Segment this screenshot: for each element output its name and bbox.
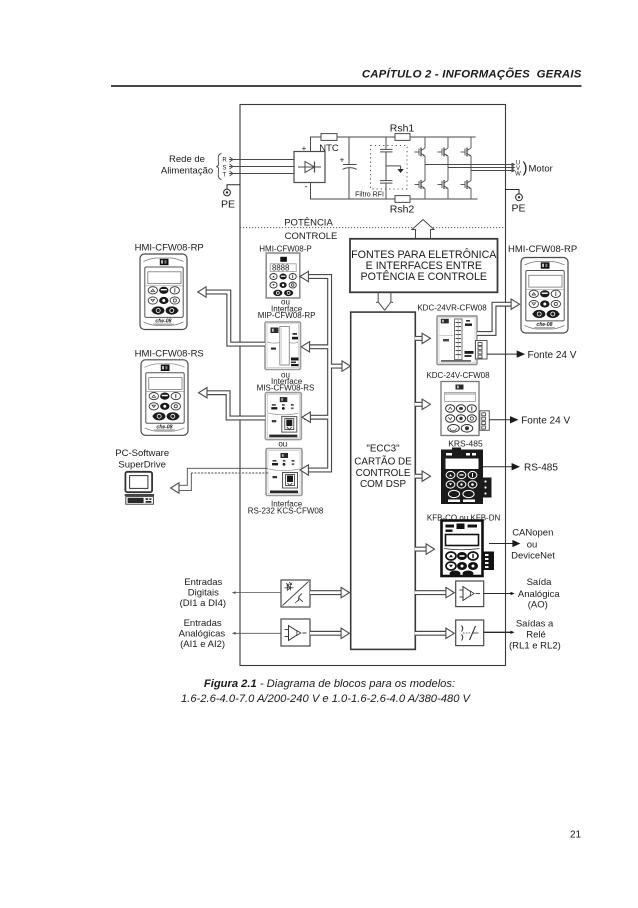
wire RS-485	[483, 466, 512, 468]
svg-text:RS-485: RS-485	[524, 463, 558, 474]
svg-text:KDC-24V-CFW08: KDC-24V-CFW08	[426, 371, 490, 380]
keypad HMI-CFW08-RP right	[521, 258, 568, 334]
svg-text:Entradas: Entradas	[184, 577, 222, 588]
svg-text:KRS-485: KRS-485	[448, 438, 483, 448]
open arrowheads	[300, 271, 308, 281]
wire CANopen/DeviceNet	[489, 543, 513, 545]
outer diagram box	[240, 105, 506, 666]
brace	[216, 154, 221, 180]
svg-text:DeviceNet: DeviceNet	[511, 551, 555, 562]
svg-text:PC-Software: PC-Software	[115, 448, 169, 459]
transistor Q3	[461, 146, 472, 159]
ground PE right	[506, 190, 526, 215]
shunt Rsh1	[395, 134, 410, 141]
svg-text:W: W	[515, 171, 521, 177]
keypad HMI-CFW08-RP left	[140, 254, 187, 330]
svg-text:Relé: Relé	[526, 629, 546, 640]
svg-text:MIP-CFW08-RP: MIP-CFW08-RP	[258, 311, 316, 320]
svg-text:1.6-2.6-4.0-7.0 A/200-240 V e: 1.6-2.6-4.0-7.0 A/200-240 V e 1.0-1.6-2.…	[181, 693, 472, 705]
RFI filter dotted box	[371, 146, 408, 190]
svg-text:Digitais: Digitais	[188, 587, 219, 598]
svg-text:+: +	[302, 144, 307, 153]
wire AO output	[484, 593, 512, 595]
svg-text:-: -	[305, 182, 308, 192]
keypad HMI-CFW08-P	[266, 253, 300, 298]
svg-text:POTÊNCIA: POTÊNCIA	[284, 218, 333, 229]
box ECC3 control card	[351, 312, 416, 649]
svg-text:Rsh2: Rsh2	[390, 203, 415, 215]
transistor Q2	[438, 146, 449, 159]
header title	[362, 67, 582, 80]
transistor Q1	[415, 146, 426, 159]
svg-text:CARTÃO DE: CARTÃO DE	[354, 456, 412, 467]
funnel arrow FONTES to ECC3	[376, 293, 393, 311]
svg-text:FONTES PARA ELETRÔNICA: FONTES PARA ELETRÔNICA	[351, 248, 497, 261]
svg-text:HMI-CFW08-P: HMI-CFW08-P	[259, 244, 311, 253]
wire KCS to PC (solid top, dashed RS-232 bottom)	[179, 468, 268, 490]
svg-text:COM DSP: COM DSP	[360, 479, 407, 490]
svg-text:T: T	[223, 172, 227, 178]
svg-text:R: R	[222, 158, 227, 164]
wire Fonte 24V #1	[487, 353, 517, 355]
arrow ECC3 to KDC-24VR	[415, 336, 424, 341]
svg-text:KDC-24VR-CFW08: KDC-24VR-CFW08	[417, 304, 487, 313]
pentagon arrow up from FONTES to power	[412, 220, 434, 239]
wire into DI block	[234, 592, 282, 594]
wire KDC-24VR to HMI-RP right	[477, 304, 514, 333]
interface module KCS-CFW08	[266, 449, 302, 496]
svg-text:S: S	[222, 165, 226, 171]
svg-text:"ECC3": "ECC3"	[366, 444, 400, 455]
svg-text:): )	[523, 160, 528, 177]
interface module MIP-CFW08-RP	[265, 322, 301, 370]
svg-text:PE: PE	[221, 199, 235, 211]
NTC resistor	[321, 134, 337, 141]
svg-text:21: 21	[570, 830, 582, 841]
svg-text:(RL1 e RL2): (RL1 e RL2)	[509, 641, 561, 652]
svg-text:ou: ou	[278, 440, 287, 449]
transistor Q5	[438, 178, 449, 191]
IGBT legs	[425, 137, 471, 199]
box FONTES	[350, 239, 498, 292]
interface module MIS-CFW08-RS	[265, 393, 301, 440]
svg-text:Figura 2.1 - Diagrama de bloco: Figura 2.1 - Diagrama de blocos para os …	[204, 678, 455, 690]
svg-text:CANopen: CANopen	[512, 527, 553, 538]
svg-text:CONTROLE: CONTROLE	[285, 231, 338, 242]
ground PE left	[221, 185, 240, 211]
serial module KRS-485	[441, 448, 492, 505]
svg-text:Entradas: Entradas	[184, 618, 222, 629]
svg-text:8888: 8888	[272, 264, 289, 273]
dotted divider potencia/controle	[240, 227, 413, 229]
rectifier bridge	[294, 144, 325, 192]
input wire chevrons	[230, 157, 234, 176]
svg-text:CAPÍTULO 2 - INFORMAÇÕES GERA: CAPÍTULO 2 - INFORMAÇÕES GERAIS	[362, 67, 582, 80]
wire relay outputs	[484, 631, 512, 633]
input wires R S T	[229, 160, 294, 174]
relay output block	[456, 620, 484, 646]
arrow ECC3 to KDC-24V	[415, 402, 424, 407]
power supply module KDC-24V-CFW08	[441, 382, 489, 436]
arrow ECC3 to relay block	[415, 631, 448, 636]
power supply module KDC-24VR-CFW08	[437, 316, 487, 365]
svg-text:ou: ou	[527, 539, 538, 550]
svg-text:Filtro RFI: Filtro RFI	[355, 192, 384, 199]
svg-text:POTÊNCIA E CONTROLE: POTÊNCIA E CONTROLE	[361, 270, 488, 283]
motor output wires U V W	[425, 165, 513, 171]
digital input opto block	[281, 580, 310, 607]
arrow DI block to ECC3	[310, 590, 343, 595]
svg-text:HMI-CFW08-RP: HMI-CFW08-RP	[135, 243, 204, 254]
wire into AI block	[234, 632, 282, 634]
svg-text:SuperDrive: SuperDrive	[118, 460, 166, 471]
analog input amp block	[281, 619, 310, 646]
svg-text:(DI1 a DI4): (DI1 a DI4)	[180, 598, 226, 609]
arrow AI block to ECC3	[310, 631, 343, 636]
svg-text:NTC: NTC	[319, 143, 339, 154]
svg-text:+: +	[340, 156, 345, 165]
arrow ECC3 to KFB	[415, 547, 428, 552]
svg-text:Motor: Motor	[529, 163, 553, 174]
wire bus trunk HMI-P to ECC3/MIS/KCS	[304, 277, 330, 471]
white pass of hollow ribbons	[204, 277, 514, 634]
svg-text:HMI-CFW08-RP: HMI-CFW08-RP	[508, 244, 577, 255]
DC link capacitor	[343, 137, 357, 199]
shunt Rsh2	[395, 196, 410, 203]
svg-text:Rede de: Rede de	[169, 154, 205, 165]
keypad HMI-CFW08-RS	[141, 360, 188, 436]
transistor Q4	[415, 178, 426, 191]
svg-text:Rsh1: Rsh1	[390, 123, 415, 135]
transistor Q6	[461, 178, 472, 191]
svg-text:MIS-CFW08-RS: MIS-CFW08-RS	[257, 384, 315, 393]
svg-text:Analógica: Analógica	[518, 589, 560, 600]
svg-text:CONTROLE: CONTROLE	[356, 468, 411, 479]
svg-text:Fonte 24 V: Fonte 24 V	[528, 350, 577, 361]
fieldbus module KFB	[442, 521, 495, 577]
arrow ECC3 to KRS-485	[415, 474, 424, 479]
analog output amp block	[456, 581, 484, 607]
svg-text:Fonte 24 V: Fonte 24 V	[521, 415, 570, 426]
svg-text:Saídas a: Saídas a	[516, 618, 554, 629]
wire MIP to HMI-RP left	[204, 292, 265, 344]
wire Fonte 24V #2	[489, 419, 511, 421]
PC computer icon	[125, 472, 154, 504]
svg-text:HMI-CFW08-RS: HMI-CFW08-RS	[135, 348, 204, 359]
svg-text:(AO): (AO)	[528, 599, 548, 610]
svg-text:PE: PE	[511, 202, 525, 214]
dark pass of hollow ribbons	[204, 277, 514, 634]
wire MIS to HMI-RS	[205, 393, 265, 418]
arrow ECC3 to AO block	[415, 590, 448, 595]
svg-text:RS-232 KCS-CFW08: RS-232 KCS-CFW08	[248, 507, 324, 516]
header rule	[111, 85, 582, 87]
svg-text:Alimentação: Alimentação	[161, 165, 213, 176]
DC bus rails	[311, 137, 478, 199]
svg-text:(AI1 e AI2): (AI1 e AI2)	[180, 639, 225, 650]
svg-text:Saída: Saída	[527, 577, 553, 588]
